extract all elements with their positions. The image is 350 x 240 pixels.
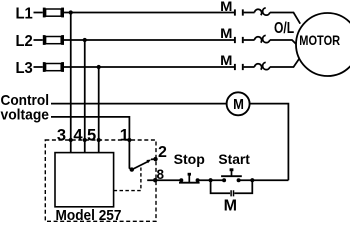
svg-text:MOTOR: MOTOR xyxy=(299,33,340,48)
svg-text:8: 8 xyxy=(156,167,164,182)
svg-text:L1: L1 xyxy=(16,6,33,23)
svg-text:M: M xyxy=(220,0,232,14)
svg-text:4: 4 xyxy=(73,126,83,144)
svg-text:2: 2 xyxy=(158,144,167,161)
svg-text:M: M xyxy=(220,52,232,68)
svg-text:L3: L3 xyxy=(16,60,33,77)
svg-text:1: 1 xyxy=(120,126,129,144)
svg-text:M: M xyxy=(220,25,232,41)
svg-text:M: M xyxy=(233,97,244,113)
svg-text:voltage: voltage xyxy=(1,106,50,123)
svg-text:Start: Start xyxy=(218,151,250,167)
svg-text:Model 257: Model 257 xyxy=(56,207,122,224)
svg-text:O/L: O/L xyxy=(274,20,294,37)
svg-text:5: 5 xyxy=(87,126,96,144)
svg-text:M: M xyxy=(224,198,237,215)
svg-text:L2: L2 xyxy=(16,33,33,50)
svg-text:3: 3 xyxy=(57,126,66,144)
svg-text:Stop: Stop xyxy=(174,151,205,167)
